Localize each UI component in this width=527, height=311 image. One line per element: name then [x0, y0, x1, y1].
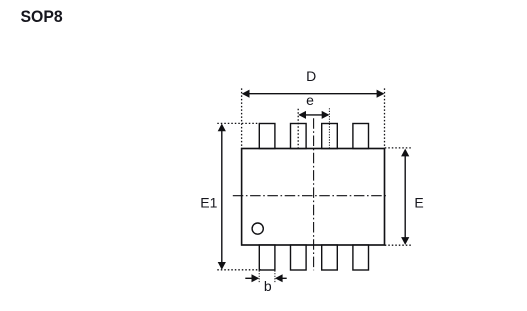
e extension line left (dotted): [297, 109, 299, 148]
b extension line left (fine dotted): [258, 271, 260, 283]
E extension line top (dotted): [385, 147, 412, 149]
svg-text:SOP8: SOP8: [21, 7, 63, 26]
pin 8 (top row, leftmost): [259, 124, 275, 149]
b extension line right (fine dotted): [274, 271, 276, 283]
pin 1 (bottom row, leftmost): [259, 245, 275, 270]
dimension b left arrow: [245, 277, 252, 279]
svg-text:E1: E1: [200, 195, 217, 211]
dimension e arrow line: [300, 114, 329, 116]
pin 2: [291, 245, 307, 270]
E1 extension line top (dotted): [217, 122, 259, 124]
horizontal centerline: [233, 195, 388, 197]
svg-text:D: D: [306, 68, 316, 84]
pin 5: [353, 124, 369, 149]
svg-text:E: E: [414, 195, 423, 211]
pin 3: [322, 245, 338, 270]
dimension b right arrow: [282, 277, 287, 279]
e extension line right (fine dotted): [328, 108, 330, 148]
E extension line bottom (dotted): [385, 244, 412, 246]
svg-text:e: e: [306, 92, 314, 108]
E1 extension line bottom (dotted): [217, 269, 261, 271]
pin 4: [353, 245, 369, 270]
dimension E1 arrow line: [221, 125, 223, 268]
svg-text:b: b: [264, 278, 272, 294]
D extension line left (dotted): [241, 88, 243, 148]
pin 6: [322, 124, 338, 149]
dimension E arrow line: [404, 150, 406, 244]
vertical centerline: [313, 118, 315, 270]
package body: [242, 149, 385, 246]
body edge redraw over pins: [242, 149, 385, 246]
D extension line right (dotted): [384, 88, 386, 148]
dimension D arrow line: [243, 93, 383, 95]
pin 1 index marker circle: [252, 223, 263, 234]
pin 7: [291, 124, 307, 149]
